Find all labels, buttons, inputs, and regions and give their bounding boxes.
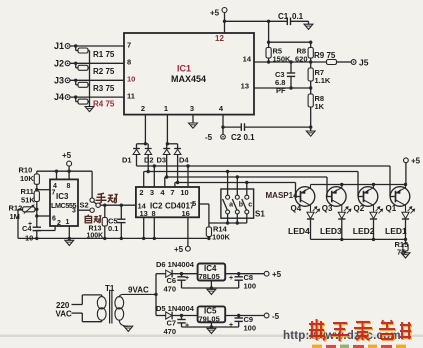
svg-text:13: 13 <box>140 209 148 218</box>
svg-text:R9 75: R9 75 <box>314 51 336 60</box>
svg-text:12: 12 <box>215 34 224 43</box>
svg-text:IC1: IC1 <box>177 64 191 74</box>
svg-text:14: 14 <box>243 55 252 64</box>
svg-text:MASP14: MASP14 <box>266 191 299 200</box>
svg-text:1.1K: 1.1K <box>315 76 331 85</box>
svg-text:2: 2 <box>141 104 145 113</box>
svg-text:10: 10 <box>180 188 188 197</box>
svg-text:R1 75: R1 75 <box>93 50 115 59</box>
svg-text:D5 1N4004: D5 1N4004 <box>156 304 195 313</box>
svg-text:51K: 51K <box>21 196 35 205</box>
svg-text:0.1: 0.1 <box>292 12 304 21</box>
svg-text:8: 8 <box>152 209 156 218</box>
svg-text:D1: D1 <box>122 156 132 165</box>
svg-text:Q2: Q2 <box>354 204 365 213</box>
svg-text:PF: PF <box>276 86 286 95</box>
svg-text:7: 7 <box>127 41 131 50</box>
svg-text:10K: 10K <box>20 174 34 183</box>
svg-text:1K: 1K <box>315 102 325 111</box>
svg-text:6: 6 <box>52 216 56 223</box>
svg-text:Q3: Q3 <box>322 204 333 213</box>
svg-text:C4: C4 <box>22 224 32 233</box>
svg-text:0.1: 0.1 <box>108 224 118 233</box>
svg-text:1M: 1M <box>10 212 20 221</box>
svg-text:470: 470 <box>164 327 177 336</box>
svg-text:-5: -5 <box>205 133 213 142</box>
svg-text:J5: J5 <box>359 58 369 68</box>
svg-text:C2 0.1: C2 0.1 <box>231 133 255 142</box>
svg-text:C1: C1 <box>278 12 289 21</box>
svg-text:J4: J4 <box>54 92 64 102</box>
svg-text:1: 1 <box>66 219 70 226</box>
svg-text:+: + <box>229 275 233 282</box>
svg-text:T1: T1 <box>105 284 115 293</box>
svg-text:R3 75: R3 75 <box>93 84 115 93</box>
svg-text:J1: J1 <box>54 41 64 51</box>
svg-text:470: 470 <box>164 285 177 294</box>
svg-text:100K: 100K <box>212 233 231 242</box>
svg-text:7: 7 <box>52 190 56 197</box>
svg-text:78L05: 78L05 <box>199 272 220 281</box>
svg-text:LED2: LED2 <box>353 226 375 236</box>
svg-text:3: 3 <box>190 104 194 113</box>
svg-text:100: 100 <box>244 282 257 291</box>
svg-text:J3: J3 <box>54 75 64 85</box>
svg-text:D3: D3 <box>157 156 167 165</box>
svg-text:2: 2 <box>139 188 143 197</box>
svg-text:75: 75 <box>397 248 405 257</box>
svg-text:+5: +5 <box>62 151 72 160</box>
svg-text:8: 8 <box>67 183 71 190</box>
svg-text:LED1: LED1 <box>385 226 407 236</box>
svg-text:R2 75: R2 75 <box>93 67 115 76</box>
svg-text:+: + <box>185 323 189 330</box>
svg-text:10: 10 <box>127 75 135 84</box>
svg-text:IC3: IC3 <box>56 192 69 201</box>
svg-text:+5: +5 <box>174 245 184 254</box>
svg-text:11: 11 <box>127 92 135 101</box>
svg-text:16: 16 <box>182 209 190 218</box>
svg-text:VAC: VAC <box>56 310 73 319</box>
svg-text:+5: +5 <box>272 270 282 279</box>
svg-text:J2: J2 <box>54 58 64 68</box>
svg-text:3: 3 <box>72 208 76 215</box>
svg-text:R4 75: R4 75 <box>93 100 115 109</box>
svg-text:9VAC: 9VAC <box>128 286 149 295</box>
svg-text:1: 1 <box>164 104 168 113</box>
svg-text:+5: +5 <box>210 9 220 18</box>
svg-text:8: 8 <box>127 58 131 67</box>
svg-text:2: 2 <box>57 220 61 227</box>
svg-text:7: 7 <box>170 188 174 197</box>
svg-text:+: + <box>185 275 189 282</box>
svg-text:Q1: Q1 <box>386 204 397 213</box>
svg-text:MAX454: MAX454 <box>171 74 206 84</box>
svg-text:79L05: 79L05 <box>199 315 220 324</box>
svg-text:S1: S1 <box>255 210 265 219</box>
svg-text:LED3: LED3 <box>320 226 342 236</box>
svg-text:R13: R13 <box>89 226 102 233</box>
svg-text:LED4: LED4 <box>288 226 310 236</box>
svg-text:100: 100 <box>244 324 257 333</box>
svg-text:3: 3 <box>150 188 154 197</box>
svg-text:-5: -5 <box>272 312 280 321</box>
svg-text:a: a <box>229 202 233 209</box>
svg-text:Q4: Q4 <box>291 204 302 213</box>
svg-text:620: 620 <box>295 55 308 64</box>
svg-text:150K: 150K <box>273 55 292 64</box>
svg-text:5: 5 <box>192 199 196 208</box>
svg-text:+5: +5 <box>411 157 421 166</box>
svg-text:100K: 100K <box>87 233 104 240</box>
svg-text:S2: S2 <box>80 201 89 210</box>
svg-text:D4: D4 <box>179 156 189 165</box>
svg-text:13: 13 <box>241 82 249 91</box>
svg-text:D6 1N4004: D6 1N4004 <box>156 260 195 269</box>
svg-text:+: + <box>229 322 233 329</box>
svg-text:CD4017: CD4017 <box>165 202 195 211</box>
svg-text:c: c <box>248 202 252 209</box>
svg-text:b: b <box>239 202 243 209</box>
